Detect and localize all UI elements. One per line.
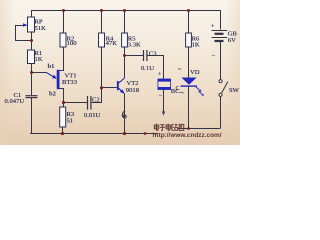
svg-text:1K: 1K: [35, 56, 43, 63]
svg-text:SW: SW: [229, 87, 240, 94]
svg-text:VD: VD: [190, 69, 200, 76]
svg-text:C2: C2: [92, 97, 100, 104]
svg-text:9018: 9018: [126, 87, 140, 94]
svg-text:3.3K: 3.3K: [128, 41, 141, 48]
svg-text:1K: 1K: [192, 41, 200, 48]
svg-text:−: −: [212, 53, 216, 60]
svg-text:100: 100: [67, 40, 78, 47]
svg-text:http://www.cndzz.com/: http://www.cndzz.com/: [153, 132, 222, 139]
svg-text:C3: C3: [149, 50, 157, 57]
svg-text:+: +: [211, 23, 215, 30]
svg-text:51K: 51K: [35, 25, 47, 32]
svg-text:BC: BC: [171, 88, 180, 95]
svg-text:47K: 47K: [106, 40, 118, 47]
svg-text:0.1U: 0.1U: [141, 65, 154, 72]
svg-text:+: +: [158, 71, 162, 78]
svg-text:6V: 6V: [228, 37, 236, 44]
svg-text:b1: b1: [48, 63, 55, 70]
svg-text:0.047U: 0.047U: [5, 98, 25, 105]
svg-text:51: 51: [67, 118, 74, 125]
svg-text:−: −: [159, 93, 163, 100]
svg-text:BT33: BT33: [62, 79, 78, 86]
svg-text:b2: b2: [49, 91, 57, 98]
svg-text:0.01U: 0.01U: [84, 112, 101, 119]
